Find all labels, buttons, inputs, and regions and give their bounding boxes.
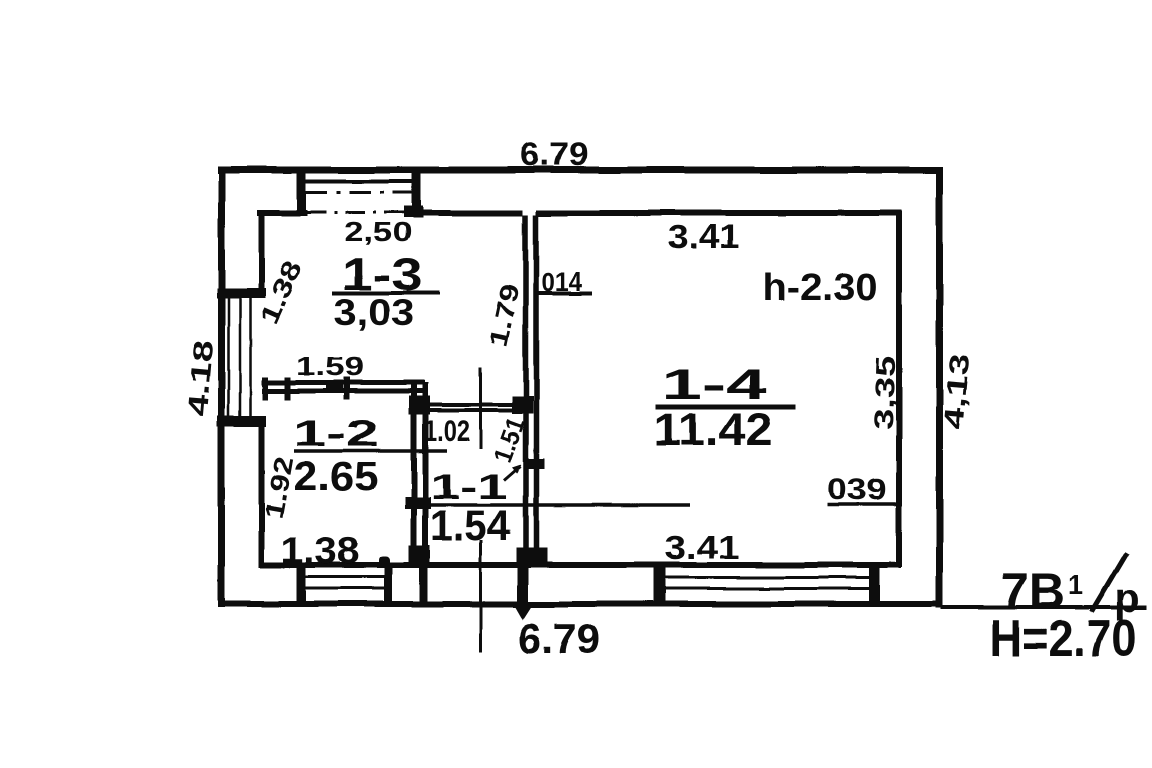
wall inner left lower	[259, 421, 265, 565]
arrow blob right end 1.02	[512, 397, 533, 414]
svg-text:039: 039	[828, 473, 887, 506]
arrow tick under bottom wall at partition	[515, 606, 532, 620]
partition 1-2/1-1 line 2	[423, 382, 429, 563]
window left: pane line 2	[239, 293, 242, 421]
svg-text:3.41: 3.41	[668, 218, 740, 256]
wall 1-2 top line 2	[262, 389, 425, 394]
junction blob bottom of partition 1-2/1-1	[409, 545, 430, 565]
window left: pane line 3	[249, 293, 252, 421]
svg-text:1: 1	[1068, 570, 1083, 600]
wall inner top room 1-3	[419, 210, 523, 216]
window top: pane line 1	[305, 180, 412, 184]
tick on partition 1-2/1-1	[405, 497, 431, 509]
svg-text:2.65: 2.65	[294, 453, 379, 499]
window top: left jamb	[297, 167, 306, 217]
svg-text:6.79: 6.79	[520, 136, 588, 172]
wall outer right	[936, 167, 943, 609]
tick 3 on 1-2 top wall	[344, 377, 350, 400]
wall inner left upper	[259, 210, 265, 293]
blob on 1-2 top wall	[326, 383, 343, 392]
svg-text:11.42: 11.42	[654, 404, 773, 455]
svg-text:h-2.30: h-2.30	[763, 267, 878, 309]
window bottom-left: pane 1	[305, 576, 385, 579]
window bottom-left: pane 2	[305, 587, 385, 590]
wall outer top	[217, 167, 941, 174]
svg-text:2,50: 2,50	[344, 216, 412, 247]
junction blob bottom partition 1-1/1-4	[516, 548, 547, 564]
window bottom-right: left jamb	[653, 563, 665, 605]
svg-text:1.54: 1.54	[430, 502, 510, 550]
svg-text:3,03: 3,03	[334, 292, 415, 333]
tick 1 on 1-2 top wall	[263, 377, 269, 400]
wall inner top left segment	[257, 210, 307, 216]
window left: pane line 1	[227, 293, 230, 421]
svg-text:1.38: 1.38	[281, 530, 359, 571]
svg-text:4,13: 4,13	[938, 352, 976, 430]
ink dot on bottom wall	[379, 556, 390, 567]
window bottom-right: right jamb	[869, 563, 880, 605]
leader arrow 1-1	[504, 466, 520, 480]
partition 1-2/1-1 line 1	[411, 382, 417, 563]
slash of 7B1/p	[1092, 553, 1127, 612]
partition 1-3/1-4 line 2	[533, 215, 539, 562]
underline 1-2	[294, 449, 447, 453]
window left: top sill	[217, 288, 266, 298]
junction blob top of partition 1-2/1-1	[409, 396, 430, 415]
svg-text:H=2.70: H=2.70	[990, 610, 1137, 668]
window bottom-right: pane 2	[665, 587, 869, 590]
window bottom-right: pane 1	[665, 576, 869, 579]
window top: right jamb	[412, 167, 421, 217]
window bottom-left: left jamb	[297, 563, 306, 603]
wall outer bottom	[218, 601, 941, 607]
tick 2 on 1-2 top wall	[285, 377, 291, 400]
svg-text:4.18: 4.18	[182, 339, 220, 417]
window top: pane line 2 dashed	[305, 191, 412, 194]
svg-text:6.79: 6.79	[518, 615, 600, 662]
window bottom-left: right jamb	[385, 563, 393, 603]
svg-text:3,35: 3,35	[869, 355, 902, 430]
dim 1.02 line 1	[417, 403, 519, 407]
underline 039	[827, 502, 902, 506]
wall inner right	[896, 210, 902, 567]
baseline extension right	[941, 606, 1147, 610]
svg-text:1-2: 1-2	[293, 413, 379, 454]
wall outer left	[218, 167, 225, 608]
block bar below partition 1-2/1-1	[420, 563, 428, 603]
underline 1-3	[332, 291, 440, 295]
svg-text:1.59: 1.59	[296, 351, 364, 381]
centerline upper	[479, 367, 482, 449]
centerline lower	[479, 540, 482, 653]
svg-text:3.41: 3.41	[665, 529, 740, 566]
wall inner top room 1-4	[536, 210, 899, 216]
wall inner bottom	[259, 562, 901, 568]
underline 1-1	[431, 503, 690, 507]
underline 014	[536, 292, 592, 296]
dim line 2.50 dash-dot	[306, 211, 404, 214]
svg-text:1.02: 1.02	[424, 413, 470, 448]
svg-text:1-4: 1-4	[662, 361, 767, 409]
underline 1-4	[655, 405, 795, 410]
arrow blob right of 2.50	[404, 206, 423, 218]
dim 1.02 line 2	[417, 409, 519, 413]
tick on partition 1-1/1-4	[524, 459, 544, 469]
partition 1-1/1-4 through bottom wall	[517, 562, 528, 607]
window left: bottom sill	[217, 416, 266, 427]
wall 1-2 top line 1	[262, 380, 425, 385]
partition 1-3/1-4 line 1	[523, 215, 529, 562]
svg-text:014: 014	[542, 267, 582, 297]
